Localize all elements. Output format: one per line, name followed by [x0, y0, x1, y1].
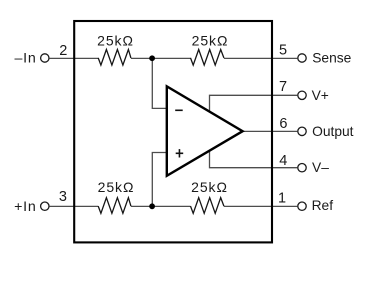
op-amp inverting input minus sign — [175, 109, 183, 111]
IC package outline box — [74, 21, 272, 242]
wire R1 to node A — [131, 57, 191, 59]
pin 2 terminal circle — [41, 54, 49, 62]
pin 5 terminal circle — [298, 54, 306, 62]
pin number 3 — [59, 189, 67, 205]
svg-text:1: 1 — [278, 191, 286, 207]
pin number 7 — [279, 79, 287, 95]
op-amp U1 triangle — [167, 86, 243, 176]
wire +In input stub (pin 3 to R3) — [50, 205, 99, 207]
pin number 1 — [278, 191, 286, 207]
pin 1 terminal circle — [298, 202, 306, 210]
label +In — [14, 199, 37, 215]
label Ref — [312, 198, 334, 213]
node A junction dot — [149, 55, 155, 61]
svg-text:2: 2 — [59, 43, 67, 59]
svg-text:–In: –In — [14, 51, 36, 67]
label V+ — [312, 88, 329, 103]
pin number 4 — [279, 153, 287, 169]
pin 6 terminal circle — [298, 127, 306, 135]
label Sense — [312, 51, 351, 66]
wire V+ supply (pin 7 to op-amp top) — [210, 95, 298, 112]
svg-text:3: 3 — [59, 189, 67, 205]
resistor R2 25kOhm top-right — [191, 50, 224, 66]
svg-text:Output: Output — [312, 124, 354, 139]
svg-text:25kΩ: 25kΩ — [191, 179, 228, 195]
resistor R3 25kOhm bottom-left — [98, 198, 131, 214]
pin number 2 — [59, 43, 67, 59]
svg-text:25kΩ: 25kΩ — [98, 179, 135, 195]
svg-text:Ref: Ref — [312, 198, 334, 213]
svg-text:7: 7 — [279, 79, 287, 95]
pin 4 terminal circle — [298, 164, 306, 172]
svg-text:V–: V– — [312, 160, 329, 175]
value label R1 25kOhm — [97, 32, 134, 48]
resistor R1 25kOhm top-left — [98, 50, 131, 66]
svg-text:4: 4 — [279, 153, 287, 169]
label -In — [14, 51, 36, 67]
node B junction dot — [149, 203, 155, 209]
pin 7 terminal circle — [298, 91, 306, 99]
wire node A to op-amp inverting input — [152, 58, 167, 108]
svg-text:+In: +In — [14, 199, 37, 215]
wire -In input stub (pin 2 to R1) — [50, 57, 99, 59]
value label R3 25kOhm — [98, 179, 135, 195]
pin number 5 — [279, 43, 287, 59]
label Output — [312, 124, 354, 139]
wire R4 to pin 1 Ref terminal — [224, 205, 297, 207]
wire output (op-amp apex to pin 6) — [243, 130, 298, 132]
svg-text:V+: V+ — [312, 88, 329, 103]
op-amp non-inverting input plus sign — [176, 149, 184, 157]
svg-text:25kΩ: 25kΩ — [192, 32, 229, 48]
pin number 6 — [279, 116, 287, 132]
value label R2 25kOhm — [192, 32, 229, 48]
resistor R4 25kOhm bottom-right — [191, 198, 224, 214]
value label R4 25kOhm — [191, 179, 228, 195]
wire R3 to node B — [131, 205, 191, 207]
svg-text:5: 5 — [279, 43, 287, 59]
pin 3 terminal circle — [41, 202, 49, 210]
svg-text:6: 6 — [279, 116, 287, 132]
wire node B to op-amp non-inverting input — [152, 153, 167, 207]
wire V- supply (pin 4 to op-amp bottom) — [210, 151, 298, 168]
svg-text:25kΩ: 25kΩ — [97, 32, 134, 48]
wire R2 to pin 5 Sense terminal — [224, 57, 297, 59]
label V- — [312, 160, 329, 175]
svg-text:Sense: Sense — [312, 51, 351, 66]
